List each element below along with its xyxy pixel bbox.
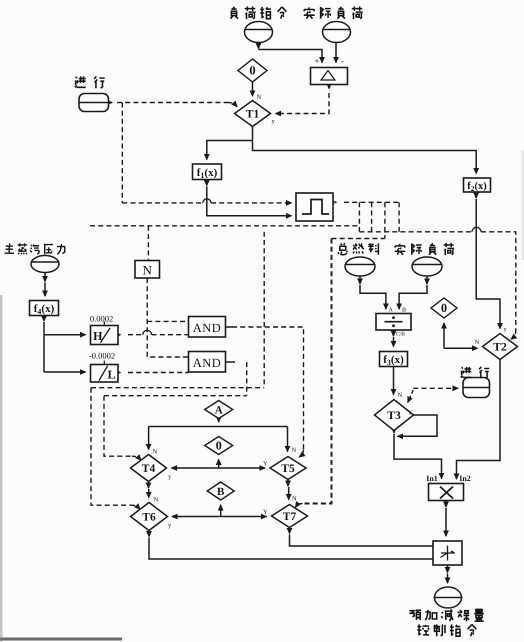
svg-text:N: N [292, 447, 297, 454]
svg-text:y: y [272, 118, 276, 125]
svg-text:0: 0 [249, 64, 255, 78]
svg-text:f2(x): f2(x) [467, 181, 487, 193]
svg-text:In2: In2 [459, 474, 471, 483]
svg-text:H: H [93, 329, 103, 343]
svg-text:In1: In1 [426, 474, 438, 483]
svg-text:N: N [475, 339, 480, 346]
svg-text:T2: T2 [493, 342, 507, 354]
svg-text:T7: T7 [283, 511, 297, 523]
svg-text:y: y [168, 522, 172, 529]
svg-text:Y: Y [408, 410, 413, 417]
svg-text:N: N [292, 496, 297, 503]
svg-text:N: N [398, 392, 403, 399]
svg-text:y: y [504, 326, 508, 333]
svg-text:L: L [107, 368, 115, 382]
svg-text:T6: T6 [142, 512, 156, 524]
svg-text:A: A [389, 308, 394, 314]
svg-text:N: N [143, 263, 153, 278]
svg-text:B: B [402, 308, 406, 314]
svg-text:C/B: C/B [396, 332, 405, 338]
svg-text:f4(x): f4(x) [34, 303, 55, 316]
svg-text:T3: T3 [387, 410, 401, 422]
svg-text:N: N [154, 497, 159, 504]
svg-text:AND: AND [193, 356, 222, 370]
svg-text:-0.0002: -0.0002 [89, 351, 115, 361]
svg-text:B: B [217, 486, 225, 498]
svg-text:0: 0 [441, 301, 447, 315]
svg-text:f3(x): f3(x) [383, 354, 404, 367]
svg-text:Y: Y [263, 509, 268, 516]
svg-text:A: A [215, 405, 223, 417]
svg-text:-: - [341, 56, 344, 66]
svg-text:T5: T5 [281, 463, 295, 475]
svg-text:N: N [153, 449, 158, 456]
svg-text:f1(x): f1(x) [197, 167, 218, 180]
svg-text:0.0002: 0.0002 [90, 314, 113, 324]
svg-text:T1: T1 [246, 109, 260, 121]
svg-text:Y: Y [263, 461, 268, 468]
svg-text:T4: T4 [142, 463, 156, 475]
svg-text:0: 0 [216, 439, 222, 453]
svg-text:AND: AND [193, 321, 222, 335]
svg-text:y: y [168, 474, 172, 481]
svg-text:N: N [257, 94, 262, 101]
svg-text:+: + [314, 56, 319, 66]
